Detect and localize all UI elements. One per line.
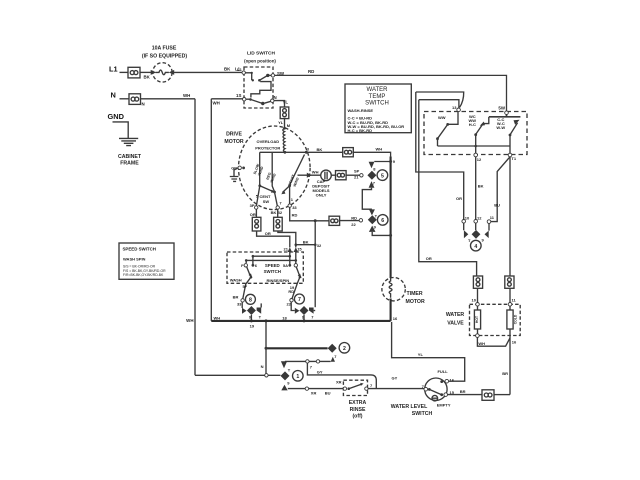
svg-text:H-C: H-C xyxy=(469,122,476,127)
svg-text:WH: WH xyxy=(312,170,319,175)
wire to terminal 13 lower xyxy=(419,100,459,108)
svg-text:SWITCH: SWITCH xyxy=(264,269,281,274)
connector CO (cap) xyxy=(336,171,347,180)
connector CO (YL) xyxy=(280,107,289,119)
wire BK L1 to lid switch xyxy=(172,67,242,73)
svg-text:WH: WH xyxy=(186,318,193,323)
svg-text:GY: GY xyxy=(392,375,398,380)
extra rinse switch S5 xyxy=(336,379,368,419)
connector 8 xyxy=(241,294,262,328)
wire N WH to left bus xyxy=(141,93,196,99)
svg-text:OR: OR xyxy=(265,231,271,236)
svg-text:15: 15 xyxy=(297,247,302,252)
svg-text:RINSE: RINSE xyxy=(350,407,366,413)
svg-text:T1: T1 xyxy=(511,156,516,161)
wire XR BU row xyxy=(288,375,424,395)
svg-text:12: 12 xyxy=(477,157,482,162)
svg-text:WASH SPIN: WASH SPIN xyxy=(123,256,146,261)
svg-text:GND: GND xyxy=(108,112,125,121)
timer motor M2 xyxy=(382,157,425,305)
svg-text:WASH-RINSE: WASH-RINSE xyxy=(348,108,374,113)
svg-text:SPEED: SPEED xyxy=(265,263,280,268)
wire OR upper branch xyxy=(416,92,464,220)
wire WH valve bottom xyxy=(477,337,517,346)
svg-text:10A FUSE: 10A FUSE xyxy=(152,45,177,51)
svg-text:OVERLOAD: OVERLOAD xyxy=(256,139,279,144)
svg-text:(open position): (open position) xyxy=(244,59,276,64)
svg-text:N: N xyxy=(261,364,264,369)
svg-text:GY: GY xyxy=(317,369,323,374)
svg-text:WH: WH xyxy=(183,93,190,98)
svg-text:BU: BU xyxy=(325,390,331,395)
wire BR CO to valve riser xyxy=(494,394,510,396)
svg-text:H-C = BK-RD: H-C = BK-RD xyxy=(348,128,373,133)
svg-text:YL: YL xyxy=(418,352,424,357)
svg-text:16: 16 xyxy=(393,316,398,321)
connector 4 xyxy=(464,223,489,251)
speed switch info box xyxy=(119,243,174,279)
svg-text:SW: SW xyxy=(263,199,270,204)
RD wire lid switch to temp switch xyxy=(275,69,507,111)
connector CO (N) xyxy=(129,94,145,107)
connector CO (valve hot) xyxy=(473,276,482,288)
svg-text:F/R=BK-BK,GY-BK/RD-BK: F/R=BK-BK,GY-BK/RD-BK xyxy=(123,273,164,277)
svg-text:SWITCH: SWITCH xyxy=(365,101,389,107)
fuse F1 10A xyxy=(142,45,188,82)
node N xyxy=(111,90,116,99)
svg-text:BK: BK xyxy=(271,210,277,215)
svg-text:LID SWITCH: LID SWITCH xyxy=(247,51,276,57)
node GND xyxy=(108,112,125,121)
connector CO (BR) xyxy=(482,390,494,401)
svg-text:VALVE: VALVE xyxy=(447,320,464,326)
wire RD row CO to connector 6 xyxy=(329,215,359,227)
wire BR valve return xyxy=(502,336,510,395)
motor ground GN xyxy=(230,166,245,182)
wire WH vertical to bus xyxy=(210,99,212,321)
lid switch S1 xyxy=(237,51,288,108)
svg-text:32: 32 xyxy=(278,210,283,215)
temp contact W-C xyxy=(469,114,489,136)
svg-text:WATER LEVEL: WATER LEVEL xyxy=(391,404,428,410)
svg-text:RD: RD xyxy=(292,212,298,217)
svg-text:16: 16 xyxy=(512,339,517,344)
overload protector xyxy=(283,128,286,154)
svg-text:7: 7 xyxy=(298,297,301,303)
temp contact W-W xyxy=(436,112,458,147)
svg-text:BR: BR xyxy=(233,294,239,299)
wire BR water level to CO xyxy=(448,389,483,395)
svg-text:(off): (off) xyxy=(352,413,362,419)
connector CO (BK) xyxy=(274,209,283,231)
wire BK terminal 12 down xyxy=(476,157,484,220)
svg-text:YL: YL xyxy=(278,120,284,125)
connector 2 xyxy=(266,343,350,362)
svg-text:MOTOR: MOTOR xyxy=(224,139,243,145)
connector CO (L1) xyxy=(128,67,140,78)
wire L1 lead xyxy=(120,71,129,73)
svg-text:12: 12 xyxy=(477,216,482,221)
connector 5 xyxy=(360,159,396,188)
svg-text:10: 10 xyxy=(472,298,477,303)
wire YL timer to water level switch xyxy=(392,322,465,381)
svg-text:COLD: COLD xyxy=(514,314,518,324)
svg-text:32: 32 xyxy=(317,243,322,248)
svg-text:WATER: WATER xyxy=(446,312,465,318)
wire T1 down to valve xyxy=(509,157,511,276)
wire timer to bus corner xyxy=(391,299,398,321)
wire RD start to connector 6 xyxy=(290,207,329,222)
wire BK tap to riser xyxy=(295,239,323,248)
start winding xyxy=(288,155,305,188)
centrifugal switch xyxy=(256,186,294,204)
wire BK motor to right riser xyxy=(306,147,342,153)
wire jumper row connectors 1-2 xyxy=(285,360,331,363)
svg-text:BR: BR xyxy=(460,389,466,394)
svg-text:8: 8 xyxy=(249,298,252,304)
svg-text:33: 33 xyxy=(237,302,242,307)
wire YL lid switch to motor xyxy=(274,101,285,107)
wire rinse blade to connector 7 xyxy=(287,277,300,307)
ground cabinet frame xyxy=(113,122,142,167)
wire YL into motor xyxy=(278,119,291,130)
wire BK to fuse xyxy=(140,72,152,79)
terminal 13 xyxy=(452,105,460,111)
wire WH to lid switch 1S xyxy=(211,93,243,106)
svg-text:XR: XR xyxy=(336,379,342,384)
speed switch S2 xyxy=(227,247,303,283)
svg-text:PROTECTOR: PROTECTOR xyxy=(255,146,280,151)
svg-text:4: 4 xyxy=(474,244,477,250)
svg-text:DRIVE: DRIVE xyxy=(226,131,242,137)
wire OR to speed switch xyxy=(257,231,290,252)
wire N lead xyxy=(120,98,130,100)
connector CO (valve cold) xyxy=(505,276,514,288)
WH bus xyxy=(211,315,390,321)
wire N vertical bus xyxy=(186,99,195,376)
drive motor M1 xyxy=(224,126,310,210)
svg-text:SP: SP xyxy=(354,168,360,173)
svg-text:WH: WH xyxy=(214,315,221,320)
wire GY jumper xyxy=(307,363,376,389)
svg-text:EXTRA: EXTRA xyxy=(349,400,367,406)
svg-text:3P: 3P xyxy=(250,203,255,208)
svg-text:ONLY: ONLY xyxy=(316,192,327,197)
svg-text:S/S = BK-OR/RD-OR: S/S = BK-OR/RD-OR xyxy=(123,265,156,269)
wire to valve terminals xyxy=(472,288,517,302)
wire OR lower branch to valve xyxy=(419,100,477,276)
svg-text:RD: RD xyxy=(308,69,314,74)
motor internal bus xyxy=(260,146,310,153)
svg-text:CABINET: CABINET xyxy=(118,154,142,160)
svg-text:1S: 1S xyxy=(236,93,241,98)
wire WH to riser xyxy=(353,146,390,157)
svg-text:2: 2 xyxy=(343,346,346,352)
valve hot coil xyxy=(474,306,480,337)
svg-text:WW: WW xyxy=(438,115,446,120)
water valve box xyxy=(446,303,520,336)
terminal 12 xyxy=(474,153,482,162)
svg-text:MOTOR: MOTOR xyxy=(406,299,425,305)
regular winding xyxy=(266,152,277,191)
svg-text:1: 1 xyxy=(296,374,299,380)
svg-text:N: N xyxy=(274,95,277,100)
svg-text:WH: WH xyxy=(478,341,485,346)
svg-text:RD: RD xyxy=(351,215,357,220)
capacitor C1 xyxy=(298,170,336,198)
svg-text:RD: RD xyxy=(288,289,294,294)
temp switch common bus xyxy=(438,135,511,154)
svg-text:L1: L1 xyxy=(237,67,242,72)
svg-text:L1: L1 xyxy=(109,65,118,74)
svg-text:6: 6 xyxy=(381,218,384,224)
svg-text:SWITCH: SWITCH xyxy=(412,411,433,417)
svg-text:13: 13 xyxy=(452,105,457,110)
svg-text:N: N xyxy=(111,90,116,99)
svg-text:BK: BK xyxy=(144,75,151,80)
svg-text:FRAME: FRAME xyxy=(120,161,139,167)
svg-text:N: N xyxy=(142,102,145,107)
svg-text:BK: BK xyxy=(478,184,484,189)
wire connector 6 to riser xyxy=(372,232,392,237)
svg-text:HOT: HOT xyxy=(475,315,479,323)
svg-text:RINSE/SPIN: RINSE/SPIN xyxy=(266,278,289,283)
svg-text:TEMP: TEMP xyxy=(369,94,386,100)
wire N to connector 1 xyxy=(195,364,280,377)
terminal T1 xyxy=(508,153,517,161)
svg-text:SPEED SWITCH: SPEED SWITCH xyxy=(123,246,156,251)
svg-text:16: 16 xyxy=(450,377,455,382)
svg-text:10: 10 xyxy=(465,216,470,221)
svg-text:(IF SO EQUIPPED): (IF SO EQUIPPED) xyxy=(142,54,188,60)
svg-text:21: 21 xyxy=(354,174,359,179)
svg-text:33: 33 xyxy=(292,205,297,210)
connector CO (OR) xyxy=(252,209,261,231)
svg-text:BU: BU xyxy=(494,203,500,208)
svg-text:5F: 5F xyxy=(243,284,248,289)
wire wash blade to connector 8 xyxy=(233,277,251,306)
svg-text:TIMER: TIMER xyxy=(407,291,423,297)
svg-text:WASH: WASH xyxy=(230,277,242,282)
motor terminals xyxy=(250,186,298,218)
svg-text:WATER: WATER xyxy=(367,87,389,93)
connector 7 xyxy=(282,294,315,322)
svg-text:OR: OR xyxy=(426,256,432,261)
connector 1 xyxy=(281,361,304,390)
water level switch S4 xyxy=(391,369,455,417)
wire neutral riser xyxy=(265,319,268,373)
wire BU T1 to connector 4 xyxy=(491,157,510,222)
connector 4 terminals xyxy=(462,215,495,224)
svg-text:OR: OR xyxy=(456,196,462,201)
svg-text:OR: OR xyxy=(250,212,256,217)
connector CO (BK-WH) xyxy=(343,148,354,157)
water temp switch contact box xyxy=(424,112,527,155)
svg-text:5: 5 xyxy=(381,173,384,179)
wire to terminal 13 upper xyxy=(416,92,464,108)
svg-text:BK: BK xyxy=(317,147,323,152)
wire BK riser to connector 7 xyxy=(314,221,317,307)
svg-text:EMPTY: EMPTY xyxy=(437,403,451,408)
water temp switch info box xyxy=(345,84,411,133)
svg-text:5W: 5W xyxy=(498,105,505,110)
connector 6 xyxy=(359,209,388,232)
svg-text:XR: XR xyxy=(311,390,317,395)
svg-text:BR: BR xyxy=(502,371,508,376)
wire cap to connector 5 xyxy=(346,168,360,179)
svg-text:FULL: FULL xyxy=(437,369,448,374)
svg-text:W-W: W-W xyxy=(496,125,505,130)
svg-text:19: 19 xyxy=(250,323,255,328)
wire connector 5 to 6 link xyxy=(362,188,372,210)
svg-text:21: 21 xyxy=(284,247,289,252)
temp contact C-C xyxy=(489,111,521,137)
svg-text:WH: WH xyxy=(376,146,383,151)
svg-text:BK: BK xyxy=(303,239,309,244)
node L1 xyxy=(109,65,118,74)
wire BK to speed switch xyxy=(278,231,303,252)
slow winding xyxy=(253,152,265,187)
valve cold coil xyxy=(507,306,518,335)
svg-text:WH: WH xyxy=(213,101,220,106)
svg-text:5A: 5A xyxy=(283,263,288,268)
svg-text:22: 22 xyxy=(351,222,356,227)
svg-text:BK: BK xyxy=(224,67,231,72)
